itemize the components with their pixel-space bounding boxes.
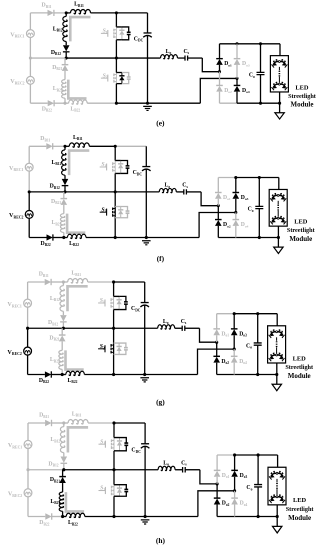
wire rectifier bottom rail [218, 236, 236, 238]
wire mid rail left [28, 327, 64, 329]
diode D_B22 [30, 102, 47, 104]
wire mid rail left [29, 191, 65, 193]
svg-text:Streetlight: Streetlight [288, 93, 317, 100]
inductor L_B11 [65, 145, 69, 147]
ground (output, triangle) [277, 237, 279, 247]
LED streetlight module [277, 455, 279, 467]
svg-text:Module: Module [291, 101, 314, 109]
wire mid rail left [28, 469, 64, 471]
svg-text:(f): (f) [157, 254, 165, 263]
svg-text:LED: LED [293, 497, 306, 504]
source V_REC2 [27, 76, 35, 84]
inductor L_B12 [65, 13, 67, 17]
LED symbols [269, 471, 285, 480]
inductor L_o [114, 469, 158, 471]
capacitor C_o [258, 178, 260, 206]
LED streetlight module [278, 178, 280, 190]
diode D_o4 [235, 212, 237, 219]
diode D_B21 [61, 328, 63, 335]
inductor L_B11 [63, 281, 67, 283]
diode D_o1 [219, 44, 221, 59]
svg-text:Module: Module [288, 514, 311, 522]
wire return from rectifier [199, 212, 236, 237]
wire mid rail left [30, 57, 66, 59]
wire feed to rectifier [200, 470, 217, 484]
wire mid rail to S1 [63, 327, 113, 329]
diode D_B22 [28, 374, 45, 376]
capacitor C_o [257, 455, 259, 484]
diode D_B21 [62, 470, 64, 477]
diode D_o2 [216, 342, 218, 356]
transistor S2 [100, 211, 107, 213]
svg-text:Module: Module [288, 372, 311, 380]
diode D_B12 [62, 311, 64, 315]
diode D_B11 [30, 12, 47, 14]
wire return from rectifier [198, 349, 235, 374]
LED streetlight module [276, 314, 278, 326]
wire feed to rectifier [202, 58, 219, 72]
magnetic core (bottom coupled inductor) [68, 80, 86, 99]
magnetic core (top coupled inductor) [69, 151, 89, 176]
diode D_o3 [234, 455, 236, 470]
inductor L_o [115, 191, 159, 193]
svg-text:Streetlight: Streetlight [285, 364, 314, 371]
svg-text:Streetlight: Streetlight [287, 227, 316, 234]
wire mid rail to S1 [65, 191, 115, 193]
inductor L_B21 [60, 214, 64, 233]
inductor L_B11 [64, 422, 68, 424]
ground (earth) [146, 102, 149, 105]
svg-text:(e): (e) [156, 118, 165, 127]
LED symbols [269, 329, 285, 338]
capacitor C_o [257, 314, 259, 343]
transistor S1 [99, 443, 106, 445]
diode D_o4 [234, 491, 236, 498]
wire rectifier top rail [217, 454, 235, 456]
capacitor C_s [178, 57, 185, 59]
diode D_B21 [64, 58, 66, 65]
magnetic core (top coupled inductor) [68, 427, 88, 452]
wire mid rail to S1 [64, 469, 114, 471]
diode D_o3 [236, 44, 238, 59]
diode D_o1 [216, 314, 218, 329]
capacitor C_DC [147, 13, 149, 33]
source V_REC2 [25, 210, 33, 218]
diode D_B12 [63, 453, 65, 457]
inductor L_B11 [66, 12, 70, 14]
diode D_o2 [217, 206, 219, 220]
ground (earth) [144, 515, 147, 518]
ground (earth) [143, 373, 146, 376]
transistor S2 [99, 490, 106, 492]
wire rectifier top rail [217, 313, 235, 315]
inductor L_o [116, 57, 160, 59]
inductor L_B21 [62, 80, 66, 99]
diode D_o4 [236, 78, 238, 85]
source V_REC1 [25, 163, 33, 171]
wire top rail to C_DC [116, 12, 147, 14]
wire bottom rail to ground/return [114, 374, 198, 376]
wire rectifier top rail [220, 43, 238, 45]
inductor L_o [114, 327, 158, 329]
svg-text:LED: LED [295, 84, 309, 91]
wire rectifier top rail [218, 177, 236, 179]
magnetic core (bottom coupled inductor) [66, 492, 84, 511]
wire bottom rail to ground/return [114, 515, 198, 517]
inductor L_B22 [61, 373, 64, 376]
inductor L_B22 [61, 515, 64, 518]
diode D_o3 [235, 178, 237, 193]
capacitor C_DC [144, 423, 146, 443]
LED symbols [270, 216, 286, 225]
transistor S1 [100, 166, 107, 168]
wire bottom rail to ground/return [115, 236, 199, 238]
capacitor C_s [175, 469, 182, 471]
source V_REC1 [24, 440, 32, 448]
inductor L_B22 [63, 102, 66, 105]
diode D_B22 [29, 236, 46, 238]
svg-text:LED: LED [293, 355, 306, 362]
transistor S2 [98, 348, 105, 350]
transistor S1 [101, 32, 108, 34]
diode D_o1 [216, 455, 218, 470]
source V_REC2 [24, 489, 32, 497]
svg-text:Module: Module [289, 235, 312, 243]
source V_REC2 [24, 347, 32, 355]
diode D_B11 [29, 145, 46, 147]
capacitor C_s [175, 327, 182, 329]
inductor L_B12 [62, 282, 64, 286]
LED symbols [269, 352, 285, 361]
wire top rail to C_DC [114, 422, 145, 424]
LED symbols [271, 59, 287, 68]
diode D_B11 [28, 422, 45, 424]
svg-text:LED: LED [294, 218, 307, 225]
inductor L_B21 [59, 492, 63, 511]
inductor L_B12 [64, 146, 66, 150]
LED symbols [270, 193, 286, 202]
diode D_B12 [65, 41, 67, 45]
capacitor C_o [260, 44, 262, 72]
wire mid rail to S1 [66, 57, 116, 59]
capacitor C_s [176, 191, 183, 193]
inductor L_B21 [59, 350, 63, 369]
LED symbols [271, 82, 287, 91]
magnetic core (bottom coupled inductor) [66, 350, 84, 369]
diode D_B21 [63, 192, 65, 199]
wire feed to rectifier [201, 192, 218, 206]
svg-text:(h): (h) [156, 536, 166, 545]
wire rectifier bottom rail [220, 102, 238, 104]
diode D_B11 [28, 281, 45, 283]
magnetic core (bottom coupled inductor) [67, 214, 85, 233]
diode D_B22 [28, 515, 45, 517]
magnetic core (top coupled inductor) [68, 286, 88, 311]
transistor S1 [98, 302, 105, 304]
wire top rail to C_DC [114, 281, 145, 283]
wire top rail to C_DC [115, 145, 146, 147]
wire return from rectifier [200, 78, 237, 103]
svg-text:(g): (g) [156, 397, 165, 406]
diode D_o1 [217, 178, 219, 193]
diode D_o4 [233, 349, 235, 356]
capacitor C_DC [145, 146, 147, 166]
wire bottom rail to ground/return [116, 102, 200, 104]
source V_REC1 [27, 30, 35, 38]
diode D_o2 [219, 72, 221, 86]
inductor L_B22 [62, 236, 65, 239]
wire rectifier bottom rail [217, 515, 235, 517]
LED symbols [269, 494, 285, 503]
inductor L_B12 [63, 423, 65, 427]
wire feed to rectifier [200, 328, 217, 342]
ground (output, triangle) [276, 375, 278, 385]
ground (earth) [145, 236, 148, 239]
magnetic core (top coupled inductor) [70, 17, 90, 41]
transistor S2 [101, 77, 108, 79]
diode D_o2 [216, 484, 218, 498]
svg-text:Streetlight: Streetlight [286, 506, 315, 513]
wire rectifier bottom rail [217, 374, 235, 376]
capacitor C_DC [144, 282, 146, 302]
ground (output, triangle) [276, 516, 278, 526]
wire return from rectifier [198, 491, 235, 517]
diode D_B12 [64, 175, 66, 179]
ground (output, triangle) [279, 103, 281, 113]
source V_REC1 [24, 299, 32, 307]
diode D_o3 [233, 314, 235, 329]
LED streetlight module [279, 44, 281, 56]
